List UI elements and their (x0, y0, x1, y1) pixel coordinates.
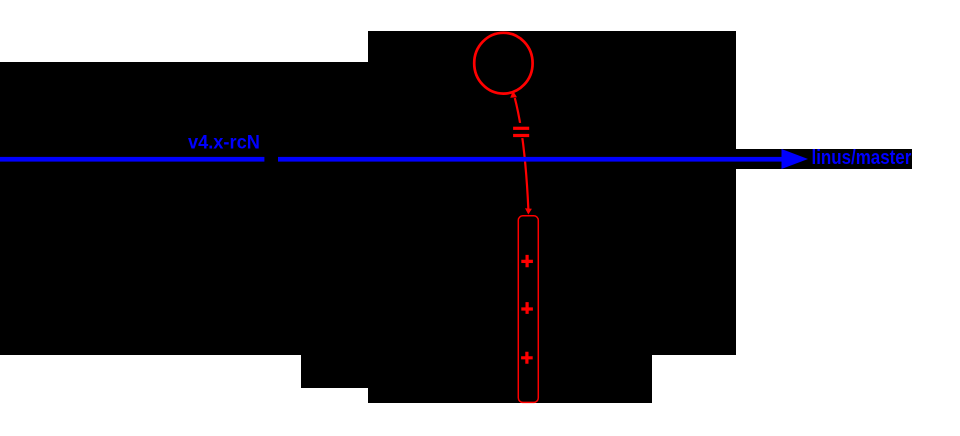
equivalence sign = (513, 127, 529, 130)
mainline branch line (left segment) (0, 157, 264, 162)
commit circle (474, 33, 532, 94)
patch + mark 1 (521, 255, 533, 267)
mask behind equivalence sign (512, 123, 531, 138)
arrowhead at commit circle (510, 91, 517, 98)
arrow line from commit circle to patch-series box (515, 98, 529, 209)
arrowhead at patch-series box (525, 208, 532, 214)
patch + mark 3 (521, 352, 533, 364)
patch + mark 2 (521, 302, 533, 314)
mainline arrowhead (782, 149, 809, 169)
mainline branch line (right segment) (278, 157, 787, 162)
patch-series box (518, 216, 538, 403)
svg-text:linus/master: linus/master (812, 145, 912, 168)
svg-text:v4.x-rcN: v4.x-rcN (188, 132, 260, 154)
